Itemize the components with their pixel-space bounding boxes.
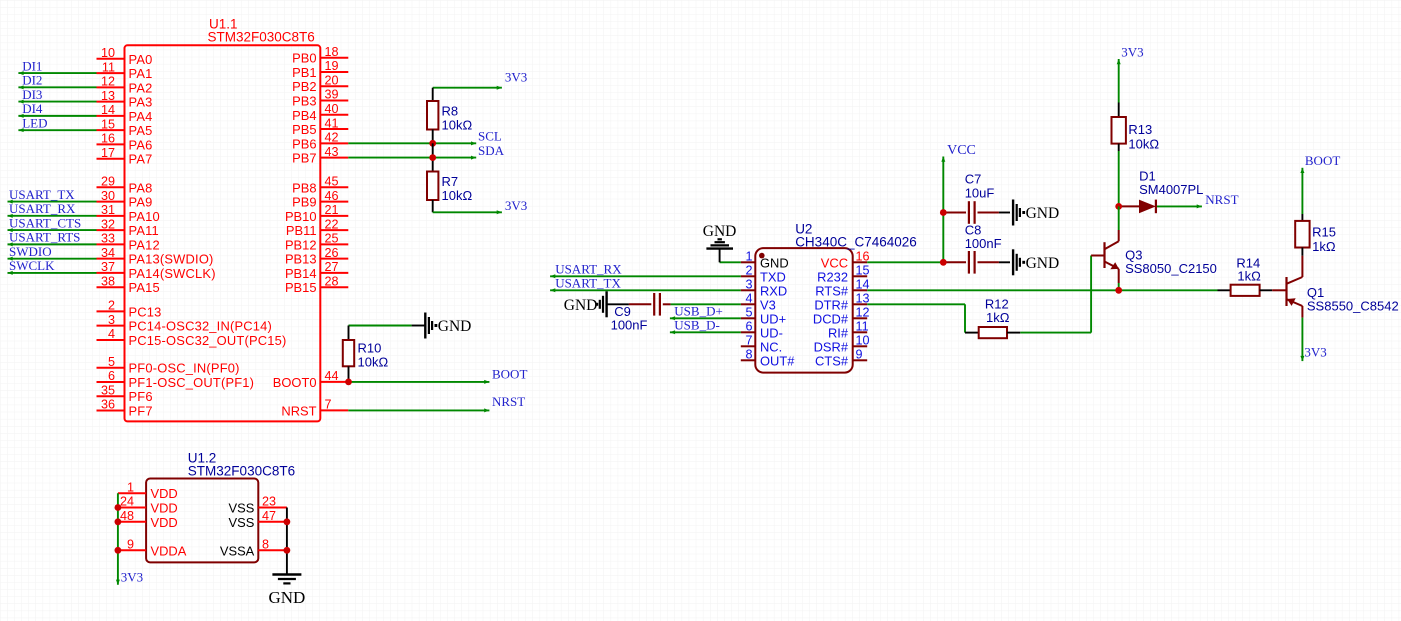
junction VDD pin24 [115,504,122,511]
wire U2 pin16 to VCC rail [867,261,943,263]
pin 1 GND of U2 [741,261,756,263]
pin 24 VDD of U1.2 [118,507,146,509]
wire net SWCLK [8,272,97,274]
svg-text:LED: LED [22,115,47,130]
pin 44 BOOT0 of U1.1 [320,381,348,383]
junction VSSA pin8 [284,547,291,554]
svg-text:PB14: PB14 [285,266,317,281]
pin 39 PB3 of U1.1 [320,100,348,102]
pin 27 PB14 of U1.1 [320,272,348,274]
svg-text:PA4: PA4 [129,109,153,124]
svg-text:29: 29 [101,175,115,189]
svg-text:PA15: PA15 [129,280,160,295]
pin 16 VCC of U2 [853,261,868,263]
svg-text:PA9: PA9 [129,195,153,210]
pin 19 PB1 of U1.1 [320,71,348,73]
pin 5 PF0-OSC_IN(PF0) of U1.1 [97,367,125,369]
svg-text:5: 5 [108,355,115,369]
svg-text:PA14(SWCLK): PA14(SWCLK) [129,266,216,281]
wire net USART_RX [8,215,97,217]
resistor R15 [1301,214,1303,221]
svg-text:V3: V3 [760,297,776,312]
svg-text:34: 34 [101,246,115,260]
svg-text:PA2: PA2 [129,80,153,95]
svg-text:26: 26 [325,246,339,260]
pin 41 PB5 of U1.1 [320,128,348,130]
pin 3 PC14-OSC32_IN(PC14) of U1.1 [97,325,125,327]
wire net DI1 [18,72,96,74]
svg-text:16: 16 [101,132,115,146]
svg-text:DCD#: DCD# [813,311,849,326]
wire VDD rail to 3V3 [117,493,119,585]
svg-text:USB_D-: USB_D- [674,318,720,333]
svg-text:GND: GND [1026,255,1060,272]
svg-text:RTS#: RTS# [815,283,849,298]
svg-text:PB5: PB5 [292,122,316,137]
svg-text:GND: GND [268,588,305,607]
junction VDDA pin9 [115,547,122,554]
svg-text:11: 11 [102,60,115,74]
pin 8 VSS of U1.2 [258,549,287,551]
svg-text:CTS#: CTS# [815,353,849,368]
svg-text:R232: R232 [817,269,848,284]
svg-text:PA10: PA10 [129,209,160,224]
IC U1.1 STM32F030C8T6 [125,45,321,421]
pin 13 PA3 of U1.1 [97,101,125,103]
junction BOOT-R10 [345,379,352,386]
wire D1 to NRST [1157,205,1202,207]
pin 17 PA7 of U1.1 [97,158,125,160]
svg-text:DTR#: DTR# [814,297,848,312]
svg-text:BOOT0: BOOT0 [273,375,317,390]
svg-text:PB9: PB9 [292,195,316,210]
pin 48 VDD of U1.2 [118,521,146,523]
svg-text:DSR#: DSR# [814,339,849,354]
svg-text:GND: GND [1026,205,1060,222]
svg-text:6: 6 [108,369,115,383]
svg-text:48: 48 [120,509,134,523]
svg-text:BOOT: BOOT [1305,153,1340,168]
resistor R7 [432,143,434,171]
svg-text:SS8050_C2150: SS8050_C2150 [1125,261,1217,276]
svg-text:UD-: UD- [760,325,783,340]
wire net DI3 [18,101,96,103]
svg-text:R10: R10 [358,341,382,356]
ground GND below U1.2 [272,573,301,575]
svg-text:PC14-OSC32_IN(PC14): PC14-OSC32_IN(PC14) [129,319,273,334]
pin 3 RXD of U2 [741,289,756,291]
pin 30 PA9 of U1.1 [97,201,125,203]
svg-text:C7: C7 [965,172,982,187]
svg-text:STM32F030C8T6: STM32F030C8T6 [188,464,295,479]
junction VDD pin48 [115,518,122,525]
svg-text:OUT#: OUT# [760,353,795,368]
svg-text:1: 1 [127,480,134,494]
svg-text:GND: GND [564,297,598,314]
wire R12 to Q3 base [1020,332,1091,334]
capacitor C8 [943,261,966,263]
svg-text:5: 5 [745,306,752,320]
svg-text:DI1: DI1 [22,58,42,73]
diode D1 SM4007PL [1119,205,1139,207]
pin 23 VSS of U1.2 [258,507,287,509]
svg-text:VDD: VDD [151,515,178,530]
pin 7 NRST of U1.1 [320,409,348,411]
pin 45 PB8 of U1.1 [320,186,348,188]
svg-text:100nF: 100nF [611,317,648,332]
svg-text:PB2: PB2 [292,79,316,94]
resistor R8 [432,88,434,101]
pin 8 OUT# of U2 [741,359,756,361]
svg-text:PB13: PB13 [285,252,317,267]
svg-text:SM4007PL: SM4007PL [1139,182,1203,197]
svg-text:10kΩ: 10kΩ [442,118,473,133]
svg-text:PC15-OSC32_OUT(PC15): PC15-OSC32_OUT(PC15) [129,333,287,348]
IC U1.2 STM32F030C8T6 power pins [146,479,258,563]
svg-text:22: 22 [325,217,339,231]
svg-text:RXD: RXD [760,283,787,298]
pin 18 PB0 of U1.1 [320,57,348,59]
svg-text:PA5: PA5 [129,123,153,138]
svg-text:10uF: 10uF [965,185,995,200]
svg-text:13: 13 [101,89,115,103]
junction Q3-RTS# [1115,287,1122,294]
junction VCC-C7 [940,209,947,216]
svg-text:PF0-OSC_IN(PF0): PF0-OSC_IN(PF0) [129,361,240,376]
svg-text:44: 44 [325,369,339,383]
svg-text:40: 40 [325,102,339,116]
svg-text:41: 41 [325,116,339,130]
pin 13 DTR# of U2 [853,303,868,305]
pin 40 PB4 of U1.1 [320,114,348,116]
svg-text:R15: R15 [1312,225,1336,240]
pin 15 R232 of U2 [853,275,868,277]
svg-text:NRST: NRST [1205,192,1238,207]
pin 12 PA2 of U1.1 [97,86,125,88]
svg-text:24: 24 [120,495,134,509]
svg-text:11: 11 [856,320,869,334]
IC U2 CH340C_C7464026 [755,248,852,373]
svg-text:VDDA: VDDA [151,543,187,558]
svg-text:R8: R8 [442,104,459,119]
pin 16 PA6 of U1.1 [97,143,125,145]
pin 20 PB2 of U1.1 [320,85,348,87]
svg-text:3V3: 3V3 [121,570,143,585]
svg-text:PB15: PB15 [285,280,317,295]
wire net USB_D- to U2 [670,331,741,333]
svg-text:PA12: PA12 [129,237,160,252]
svg-text:7: 7 [325,398,332,412]
pin 33 PA12 of U1.1 [97,243,125,245]
pin 14 PA4 of U1.1 [97,115,125,117]
svg-text:PF1-OSC_OUT(PF1): PF1-OSC_OUT(PF1) [129,375,255,390]
svg-text:42: 42 [325,131,339,145]
svg-text:PB7: PB7 [292,151,316,166]
ground GND at C8 [1012,249,1014,275]
wire net DI2 [18,86,96,88]
junction SCL-R8 [429,140,436,147]
svg-text:PB1: PB1 [292,65,316,80]
svg-text:R7: R7 [442,174,459,189]
pin 22 PB11 of U1.1 [320,229,348,231]
svg-text:18: 18 [325,45,339,59]
svg-text:VSSA: VSSA [220,543,255,558]
junction R13-D1-Q3 [1115,203,1122,210]
pin 38 PA15 of U1.1 [97,286,125,288]
svg-text:PB12: PB12 [285,237,317,252]
svg-text:10kΩ: 10kΩ [358,355,389,370]
svg-text:NC.: NC. [760,339,782,354]
junction SDA-R7 [429,154,436,161]
pin 42 PB6 of U1.1 [320,142,348,144]
svg-text:PA1: PA1 [129,66,153,81]
wire R10 to GND [349,325,412,327]
svg-text:17: 17 [101,146,115,160]
pin 34 PA13(SWDIO) of U1.1 [97,258,125,260]
svg-text:12: 12 [101,75,115,89]
svg-text:2: 2 [108,299,115,313]
pin 10 PA0 of U1.1 [97,58,125,60]
pin 9 CTS# of U2 [853,359,868,361]
svg-text:46: 46 [325,189,339,203]
wire NRST [348,409,489,411]
svg-text:BOOT: BOOT [492,367,527,382]
svg-text:SS8550_C8542: SS8550_C8542 [1307,299,1399,314]
svg-text:1kΩ: 1kΩ [986,310,1010,325]
svg-text:15: 15 [856,264,870,278]
junction VCC-C8-pin16 [940,259,947,266]
svg-text:3: 3 [745,278,752,292]
svg-text:1kΩ: 1kΩ [1237,269,1261,284]
pin 37 PA14(SWCLK) of U1.1 [97,272,125,274]
pin 5 UD+ of U2 [741,317,756,319]
svg-text:PB6: PB6 [292,136,316,151]
svg-text:30: 30 [101,189,115,203]
svg-text:3V3: 3V3 [505,70,527,85]
wire C9 to U2 pin4 [671,303,741,305]
pin 36 PF7 of U1.1 [97,410,125,412]
svg-text:PB0: PB0 [292,51,316,66]
svg-text:35: 35 [101,383,115,397]
svg-text:100nF: 100nF [965,236,1002,251]
pin 31 PA10 of U1.1 [97,215,125,217]
svg-text:6: 6 [745,320,752,334]
ground GND at C7 [1012,200,1014,226]
pin 6 PF1-OSC_OUT(PF1) of U1.1 [97,381,125,383]
wire R7 to 3V3 [433,211,502,213]
wire SDA [348,157,476,159]
svg-text:2: 2 [745,264,752,278]
pin 12 DCD# of U2 [853,317,868,319]
svg-text:PB4: PB4 [292,108,316,123]
svg-text:PA6: PA6 [129,137,153,152]
svg-text:32: 32 [101,217,115,231]
svg-text:39: 39 [325,88,339,102]
wire GND to C9 [607,303,629,305]
pin 26 PB13 of U1.1 [320,258,348,260]
pin 1 VDD of U1.2 [118,492,146,494]
svg-text:10: 10 [856,334,870,348]
svg-text:10kΩ: 10kΩ [1128,137,1159,152]
wire U2 pin1 to GND [720,261,741,263]
svg-text:37: 37 [101,260,115,274]
svg-text:7: 7 [745,334,752,348]
svg-text:33: 33 [101,232,115,246]
svg-text:23: 23 [262,495,276,509]
wire net SWDIO [8,258,97,260]
pin 43 PB7 of U1.1 [320,157,348,159]
svg-text:3: 3 [108,313,115,327]
svg-text:25: 25 [325,232,339,246]
wire VCC rail [942,157,944,263]
svg-text:CH340C_C7464026: CH340C_C7464026 [795,235,917,250]
pin 28 PB15 of U1.1 [320,286,348,288]
svg-text:DI4: DI4 [22,101,43,116]
capacitor C9 [629,303,651,305]
svg-text:PC13: PC13 [129,304,162,319]
svg-text:VCC: VCC [947,143,976,158]
svg-text:31: 31 [101,203,115,217]
ground GND near R10 [424,313,426,339]
wire net LED [18,129,96,131]
wire net USART_RTS [8,243,97,245]
pin 14 RTS# of U2 [853,289,868,291]
pin 10 DSR# of U2 [853,345,868,347]
svg-text:PA0: PA0 [129,52,153,67]
resistor R13 [1118,103,1120,118]
svg-text:19: 19 [325,59,339,73]
svg-text:20: 20 [325,73,339,87]
svg-text:USART_TX: USART_TX [555,276,621,291]
svg-text:USART_RX: USART_RX [9,201,76,216]
resistor R10 [348,326,350,341]
svg-text:GND: GND [760,255,789,270]
svg-text:PA8: PA8 [129,180,153,195]
svg-text:PA13(SWDIO): PA13(SWDIO) [129,252,214,267]
svg-text:9: 9 [127,538,134,552]
svg-text:USART_CTS: USART_CTS [9,215,81,230]
pin 15 PA5 of U1.1 [97,129,125,131]
svg-text:PB3: PB3 [292,94,316,109]
svg-text:8: 8 [745,348,752,362]
svg-text:PA3: PA3 [129,95,153,110]
svg-text:VDD: VDD [151,486,178,501]
svg-text:47: 47 [262,509,276,523]
svg-text:UD+: UD+ [760,311,786,326]
pin 21 PB10 of U1.1 [320,215,348,217]
wire Q3 emitter to RTS# net [1118,283,1120,290]
svg-text:TXD: TXD [760,269,786,284]
svg-text:14: 14 [101,103,115,117]
svg-text:VSS: VSS [229,501,255,516]
pin 2 PC13 of U1.1 [97,310,125,312]
pin 7 NC. of U2 [741,345,756,347]
svg-text:3V3: 3V3 [1121,45,1143,60]
svg-text:38: 38 [101,274,115,288]
svg-text:PB11: PB11 [286,223,317,238]
svg-text:1: 1 [745,250,752,264]
wire 3V3 to R13 [1118,59,1120,103]
pin 2 TXD of U2 [741,275,756,277]
wire net USB_D+ to U2 [670,317,741,319]
pin 47 VSS of U1.2 [258,521,287,523]
wire net USART_TX to U2 [550,289,741,291]
svg-text:4: 4 [108,327,115,341]
wire net USART_TX [8,201,97,203]
wire net USART_RX to U2 [550,275,741,277]
transistor Q1 SS8550 [1301,256,1303,277]
svg-text:PB10: PB10 [285,209,317,224]
svg-text:PF6: PF6 [129,389,153,404]
svg-text:NRST: NRST [492,394,525,409]
svg-text:12: 12 [856,306,870,320]
svg-text:USB_D+: USB_D+ [674,304,723,319]
svg-text:3V3: 3V3 [505,198,527,213]
wire VSS rail to ground [286,508,288,574]
pin 9 VDD of U1.2 [118,549,146,551]
pin 4 PC15-OSC32_OUT(PC15) of U1.1 [97,339,125,341]
svg-text:28: 28 [325,274,339,288]
svg-text:VCC: VCC [821,255,848,270]
svg-text:NRST: NRST [281,403,316,418]
pin 25 PB12 of U1.1 [320,243,348,245]
svg-text:VDD: VDD [151,501,178,516]
svg-text:SCL: SCL [478,129,502,144]
svg-text:SWCLK: SWCLK [9,258,55,273]
wire RTS# net U2 pin14 to R14 [867,289,1217,291]
pin 11 RI# of U2 [853,331,868,333]
wire SCL [348,142,476,144]
pin 29 PA8 of U1.1 [97,186,125,188]
transistor Q3 SS8050 [1118,206,1120,230]
resistor R14 [1218,289,1231,291]
svg-text:1kΩ: 1kΩ [1312,239,1336,254]
svg-text:GND: GND [703,223,737,240]
pin 46 PB9 of U1.1 [320,201,348,203]
svg-text:45: 45 [325,175,339,189]
wire 3V3 to R8 [433,87,502,89]
wire DTR# net U2 pin13 to R12 [867,303,965,305]
svg-text:USART_TX: USART_TX [9,187,75,202]
pin 1 indicator dot of U2 [759,253,765,259]
wire net DI4 [18,115,96,117]
svg-text:VSS: VSS [229,515,255,530]
svg-text:36: 36 [101,398,115,412]
svg-text:8: 8 [262,538,269,552]
pin 4 V3 of U2 [741,303,756,305]
svg-text:SWDIO: SWDIO [9,244,52,259]
svg-text:27: 27 [325,260,339,274]
svg-text:9: 9 [856,348,863,362]
svg-text:GND: GND [438,318,472,335]
svg-text:43: 43 [325,145,339,159]
resistor R12 [965,332,979,334]
svg-text:RI#: RI# [828,325,849,340]
svg-text:4: 4 [745,292,752,306]
pin 6 UD- of U2 [741,331,756,333]
svg-text:15: 15 [101,117,115,131]
ground GND above U2 [706,247,733,249]
svg-text:PA11: PA11 [129,223,159,238]
svg-text:21: 21 [325,203,339,217]
wire Q1 emitter to 3V3 [1301,318,1303,362]
svg-text:10: 10 [101,46,115,60]
pin 32 PA11 of U1.1 [97,229,125,231]
pin 35 PF6 of U1.1 [97,395,125,397]
svg-text:R13: R13 [1128,122,1152,137]
pin 11 PA1 of U1.1 [97,72,125,74]
wire BOOT [348,381,489,383]
